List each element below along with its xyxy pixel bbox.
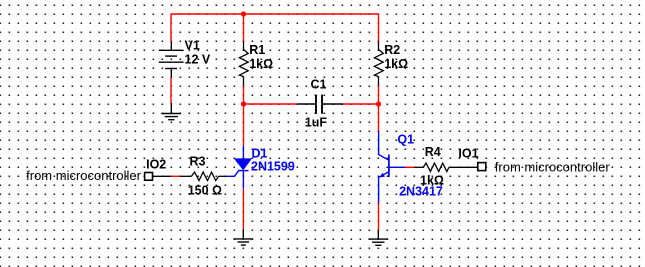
svg-text:Q1: Q1 bbox=[397, 133, 414, 147]
wire top net V1 to R2 bbox=[171, 13, 379, 15]
svg-text:R4: R4 bbox=[425, 145, 441, 159]
wire middle net left (R1 to C1) bbox=[244, 103, 298, 105]
svg-text:2N1599: 2N1599 bbox=[251, 160, 295, 174]
wire V1 bottom to ground bbox=[170, 77, 172, 103]
resistor R1 bbox=[239, 41, 248, 85]
connector IO2 bbox=[153, 175, 171, 177]
svg-text:12 V: 12 V bbox=[185, 53, 211, 67]
resistor R4 bbox=[414, 163, 477, 171]
svg-text:R3: R3 bbox=[190, 155, 206, 169]
node junction R1 bottom bbox=[241, 101, 246, 106]
svg-text:C1: C1 bbox=[311, 78, 327, 92]
svg-text:from microcontroller: from microcontroller bbox=[26, 168, 142, 183]
wire R1 bottom bbox=[243, 86, 245, 105]
resistor R3 bbox=[180, 172, 226, 181]
transistor Q1 bbox=[379, 131, 405, 203]
wire R2 junction to Q1 collector bbox=[378, 104, 380, 131]
Q1 emitter arrow bbox=[379, 173, 385, 178]
wire middle net right (C1 to R2) bbox=[343, 103, 379, 105]
wire junction to D1 anode bbox=[243, 104, 245, 146]
resistor R2 bbox=[374, 41, 383, 85]
wire R2 bottom bbox=[378, 86, 380, 105]
svg-text:IO2: IO2 bbox=[146, 157, 166, 171]
battery V1 bbox=[159, 42, 184, 78]
svg-text:1kΩ: 1kΩ bbox=[249, 57, 273, 71]
wire R2 top drop bbox=[378, 14, 380, 41]
svg-text:R1: R1 bbox=[249, 43, 265, 57]
svg-text:1uF: 1uF bbox=[305, 116, 328, 130]
svg-text:150 Ω: 150 Ω bbox=[188, 183, 222, 197]
wire D1 cathode to ground bbox=[242, 188, 244, 229]
wire Q1 base to R4 red segment bbox=[405, 166, 415, 168]
svg-text:V1: V1 bbox=[185, 38, 200, 52]
wire Q1 emitter to ground bbox=[378, 203, 380, 231]
ground (D1) bbox=[234, 229, 254, 245]
ground (Q1) bbox=[369, 230, 389, 245]
svg-text:D1: D1 bbox=[252, 146, 268, 160]
svg-text:R2: R2 bbox=[384, 43, 400, 57]
ground (V1) bbox=[161, 103, 181, 120]
wire V1 top drop bbox=[170, 14, 172, 42]
svg-text:1kΩ: 1kΩ bbox=[420, 173, 444, 187]
capacitor C1 bbox=[297, 95, 343, 114]
node junction top of R1 bbox=[241, 11, 246, 16]
svg-text:from microcontroller: from microcontroller bbox=[495, 159, 611, 174]
wire IO2 to R3 red segment bbox=[171, 175, 180, 177]
svg-text:1kΩ: 1kΩ bbox=[384, 57, 408, 71]
svg-text:IO1: IO1 bbox=[458, 146, 478, 160]
wire R1 top drop bbox=[243, 14, 245, 41]
SCR D1 bbox=[226, 146, 248, 189]
node junction R2 bottom bbox=[376, 101, 381, 106]
connector IO1 bbox=[478, 163, 486, 171]
